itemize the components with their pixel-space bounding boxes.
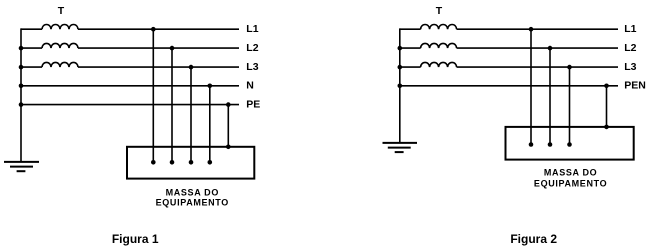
svg-text:PEN: PEN bbox=[624, 80, 646, 92]
transformer winding on L2 (Figura 1) bbox=[42, 43, 78, 48]
wire: line L1 left segment (Figura 1) bbox=[21, 28, 42, 30]
svg-text:N: N bbox=[246, 80, 254, 92]
node: terminal dot of N tap inside box (Figura 1) bbox=[208, 160, 213, 165]
svg-text:Figura 2: Figura 2 bbox=[510, 232, 557, 246]
wire: tap from L1 down to equipment (Figura 2) bbox=[530, 29, 532, 144]
node: bus junction at L2 (Figura 1) bbox=[19, 46, 24, 51]
node: junction on L3 tap (Figura 2) bbox=[567, 65, 572, 70]
svg-text:MASSA DO: MASSA DO bbox=[544, 167, 597, 177]
ground (Figura 1) bbox=[4, 162, 39, 171]
node: junction on L1 tap (Figura 1) bbox=[151, 27, 156, 32]
node: junction on N tap (Figura 1) bbox=[208, 84, 213, 89]
wire: line L1 right segment (Figura 2) bbox=[457, 28, 618, 30]
node: junction on L1 tap (Figura 2) bbox=[529, 27, 534, 32]
wire: tap from PEN down to equipment box (Figura 2) bbox=[606, 86, 608, 127]
node: terminal dot of L3 tap inside box (Figura 2) bbox=[567, 142, 572, 147]
svg-text:PE: PE bbox=[246, 98, 260, 110]
transformer winding on L2 (Figura 2) bbox=[421, 43, 457, 48]
node: bus junction at PEN (Figura 2) bbox=[398, 84, 403, 89]
node: junction on L2 tap (Figura 1) bbox=[170, 46, 175, 51]
wire: line L2 left segment (Figura 2) bbox=[400, 47, 421, 49]
wire: tap from PE down to equipment box (Figura 1) bbox=[227, 105, 229, 147]
svg-text:EQUIPAMENTO: EQUIPAMENTO bbox=[534, 178, 607, 188]
wire: line L1 left segment (Figura 2) bbox=[400, 28, 421, 30]
wire: line L3 left segment (Figura 1) bbox=[21, 66, 42, 68]
node: junction on PE tap (Figura 1) bbox=[226, 102, 231, 107]
svg-text:T: T bbox=[436, 5, 443, 17]
equipment frame box (Figura 1) bbox=[127, 147, 254, 179]
svg-text:MASSA DO: MASSA DO bbox=[166, 187, 219, 197]
node: PE terminal dot on box edge (Figura 1) bbox=[226, 145, 231, 150]
wire: line L3 right segment (Figura 1) bbox=[78, 66, 239, 68]
node: junction on L3 tap (Figura 1) bbox=[189, 65, 194, 70]
label MASSA DO EQUIPAMENTO (Figura 1) bbox=[156, 187, 229, 207]
wire: tap from L3 down to equipment (Figura 2) bbox=[569, 67, 571, 144]
svg-text:L2: L2 bbox=[246, 42, 258, 54]
wire: neutral line N (Figura 1) bbox=[21, 85, 239, 87]
svg-text:T: T bbox=[58, 5, 65, 17]
node: terminal dot of L1 tap inside box (Figura 1) bbox=[151, 160, 156, 165]
transformer winding on L1 (Figura 2) bbox=[421, 25, 457, 30]
wire: tap from L2 down to equipment (Figura 2) bbox=[549, 48, 551, 144]
svg-text:L2: L2 bbox=[624, 42, 636, 54]
wire: line L3 left segment (Figura 2) bbox=[400, 66, 421, 68]
transformer winding on L3 (Figura 1) bbox=[42, 62, 78, 67]
transformer winding on L1 (Figura 1) bbox=[42, 25, 78, 30]
wire: line L2 right segment (Figura 2) bbox=[457, 47, 618, 49]
svg-text:L3: L3 bbox=[246, 61, 258, 73]
node: bus junction at L3 (Figura 1) bbox=[19, 65, 24, 70]
transformer winding on L3 (Figura 2) bbox=[421, 62, 457, 67]
wire: tap from L3 down to equipment (Figura 1) bbox=[190, 67, 192, 162]
node: terminal dot of L2 tap inside box (Figura 2) bbox=[548, 142, 553, 147]
wire: left earth bus vertical (Figura 1) bbox=[20, 28, 22, 161]
svg-text:L3: L3 bbox=[624, 61, 636, 73]
svg-text:L1: L1 bbox=[246, 23, 258, 35]
wire: left earth bus vertical (Figura 2) bbox=[399, 28, 401, 142]
node: terminal dot of L1 tap inside box (Figura 2) bbox=[529, 142, 534, 147]
svg-text:L1: L1 bbox=[624, 23, 636, 35]
wire: line L1 right segment (Figura 1) bbox=[78, 28, 239, 30]
wire: tap from L2 down to equipment (Figura 1) bbox=[171, 48, 173, 162]
svg-text:Figura 1: Figura 1 bbox=[112, 232, 159, 246]
wire: line L3 right segment (Figura 2) bbox=[457, 66, 618, 68]
label MASSA DO EQUIPAMENTO (Figura 2) bbox=[534, 167, 607, 188]
wire: combined PEN line (Figura 2) bbox=[400, 85, 618, 87]
node: junction on PEN tap (Figura 2) bbox=[604, 84, 609, 89]
equipment frame box (Figura 2) bbox=[506, 127, 634, 160]
wire: tap from N down to equipment (Figura 1) bbox=[209, 86, 211, 163]
node: bus junction at PE (Figura 1) bbox=[19, 102, 24, 107]
node: bus junction at L3 (Figura 2) bbox=[398, 65, 403, 70]
node: junction on L2 tap (Figura 2) bbox=[548, 46, 553, 51]
node: bus junction at N (Figura 1) bbox=[19, 84, 24, 89]
node: bus junction at L2 (Figura 2) bbox=[398, 46, 403, 51]
node: PEN terminal dot on box edge (Figura 2) bbox=[604, 125, 609, 130]
svg-text:EQUIPAMENTO: EQUIPAMENTO bbox=[156, 198, 229, 208]
node: terminal dot of L2 tap inside box (Figura 1) bbox=[170, 160, 175, 165]
node: terminal dot of L3 tap inside box (Figura 1) bbox=[189, 160, 194, 165]
wire: line L2 left segment (Figura 1) bbox=[21, 47, 42, 49]
ground (Figura 2) bbox=[383, 143, 418, 152]
wire: tap from L1 down to equipment (Figura 1) bbox=[152, 29, 154, 162]
wire: protective earth line PE (Figura 1) bbox=[21, 104, 239, 106]
wire: line L2 right segment (Figura 1) bbox=[78, 47, 239, 49]
